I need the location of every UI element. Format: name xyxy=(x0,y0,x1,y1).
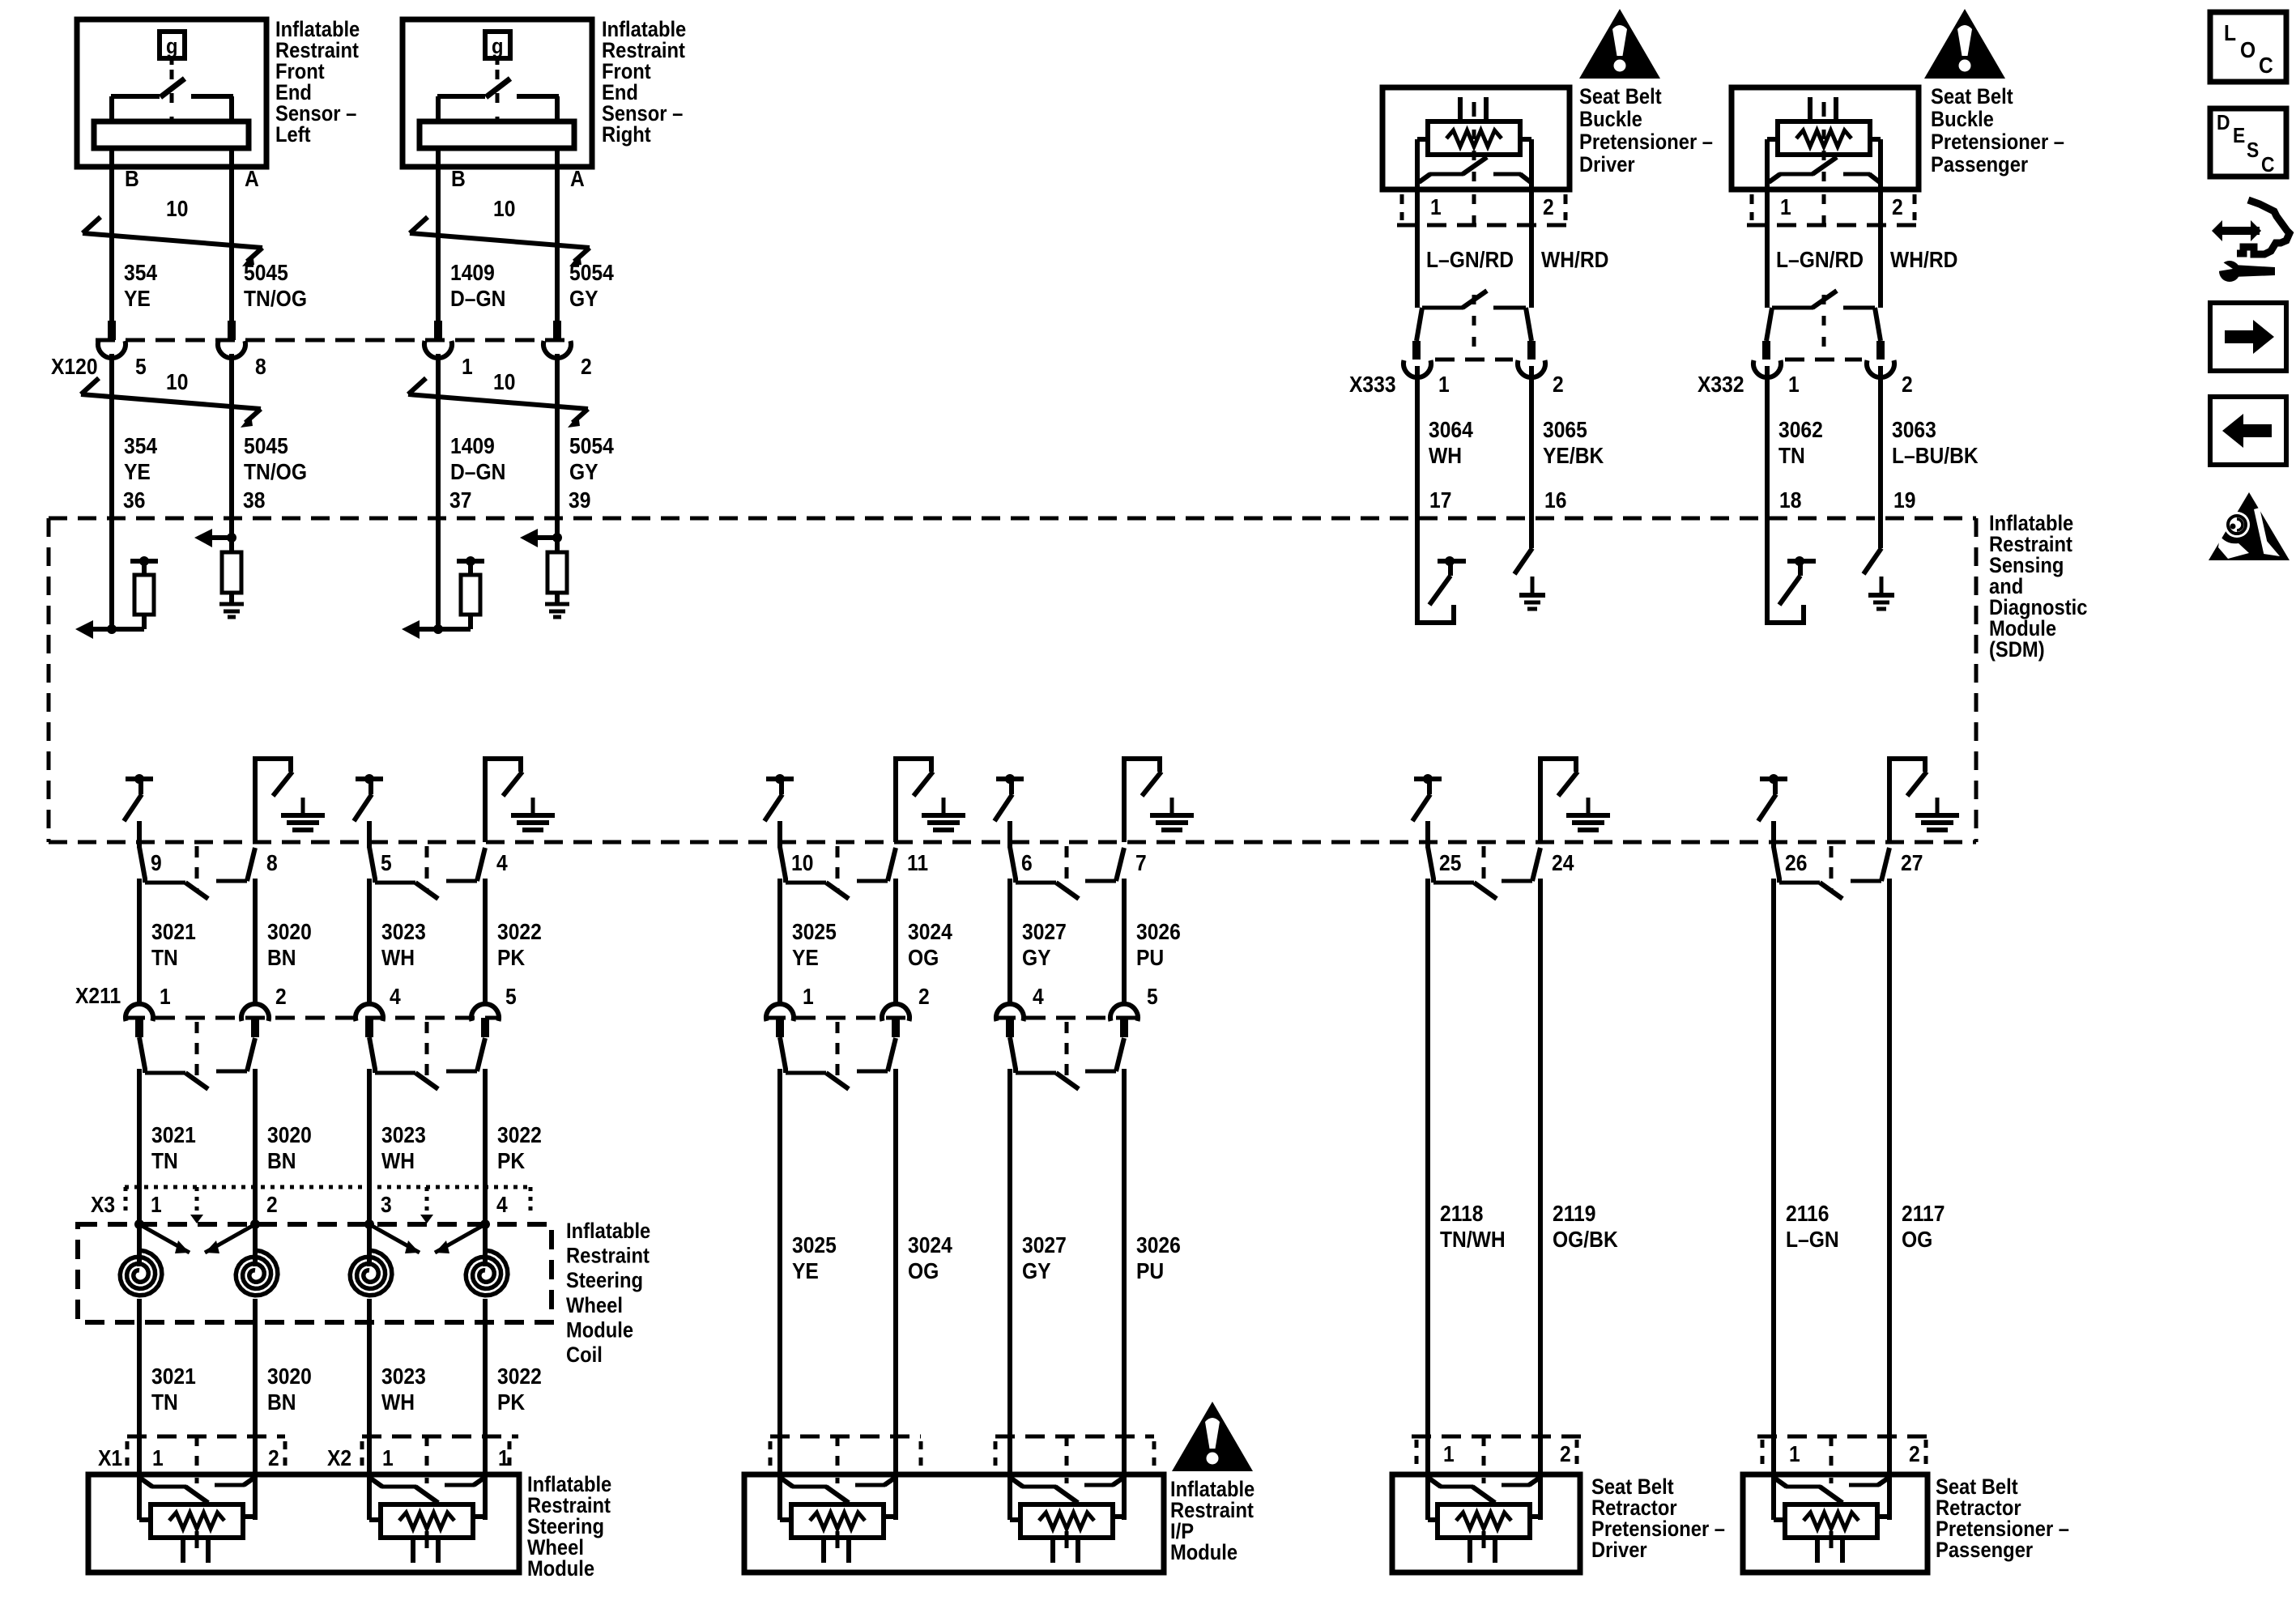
svg-text:Wheel: Wheel xyxy=(566,1293,623,1317)
svg-text:3020: 3020 xyxy=(267,1364,312,1389)
svg-text:3020: 3020 xyxy=(267,919,312,945)
component box: Inflatable Restraint I/P Module xyxy=(744,1474,1164,1572)
junction node on coil box edge at wire 3 xyxy=(364,1219,374,1229)
component box: Inflatable Restraint Front End Sensor - Left (g-switch and mass bar inside) xyxy=(77,18,360,194)
svg-text:1: 1 xyxy=(1438,372,1450,398)
svg-text:Pretensioner –: Pretensioner – xyxy=(1931,130,2064,155)
svg-text:L–GN/RD: L–GN/RD xyxy=(1426,247,1514,273)
wire through coil 4 xyxy=(483,1299,488,1322)
svg-text:L–GN: L–GN xyxy=(1786,1227,1839,1253)
svg-text:PK: PK xyxy=(497,1389,525,1415)
connector X3 label xyxy=(91,1192,115,1218)
svg-text:Coil: Coil xyxy=(566,1343,603,1368)
svg-text:WH: WH xyxy=(381,945,415,971)
junction node on coil box edge at wire 2 xyxy=(250,1219,260,1229)
wire label 3026 PU (lower) xyxy=(1136,1232,1181,1284)
clockspring coil 1 xyxy=(120,1224,162,1296)
svg-text:X2: X2 xyxy=(327,1445,351,1471)
icon: harness repair (arrows and wrench) xyxy=(2212,200,2290,282)
svg-text:PU: PU xyxy=(1136,1258,1164,1284)
wire 3024 OG from SDM to connector xyxy=(893,879,898,1002)
svg-text:16: 16 xyxy=(1544,487,1566,513)
connector shorting bar below I/P 1-2 xyxy=(780,1022,896,1089)
wire through coil 2 xyxy=(253,1299,258,1322)
svg-text:A: A xyxy=(245,166,259,192)
SDM internal: pull resistor to ground on pin 38 xyxy=(194,518,244,617)
svg-text:2117: 2117 xyxy=(1902,1201,1945,1227)
svg-text:5: 5 xyxy=(505,984,517,1010)
pin number 3 (X3) xyxy=(381,1192,392,1218)
wire label 3021 TN (middle) xyxy=(151,1122,196,1174)
wire 3023 WH to steering wheel coil xyxy=(367,1069,372,1224)
wire label 3027 GY (lower) xyxy=(1022,1232,1067,1284)
wire 5045 TN/OG from X120 to SDM pin 38 xyxy=(229,354,234,518)
SDM module dashed box top edge xyxy=(49,517,1976,521)
svg-text:3027: 3027 xyxy=(1022,919,1067,945)
clockspring coil 2 xyxy=(236,1224,278,1296)
svg-text:OG: OG xyxy=(908,1258,939,1284)
wire 3023 WH from coil to steering wheel module xyxy=(367,1322,372,1474)
svg-text:TN/OG: TN/OG xyxy=(244,286,307,312)
SDM pin number 19 xyxy=(1893,487,1915,513)
connector shorting bar below X211 4-5 xyxy=(369,1022,485,1089)
svg-text:Driver: Driver xyxy=(1591,1538,1647,1563)
connector X3 dotted mating face xyxy=(125,1185,532,1189)
svg-text:354: 354 xyxy=(124,433,157,459)
component label: Inflatable Restraint Steering Wheel Module xyxy=(527,1473,611,1581)
SDM pin number 11 xyxy=(907,850,928,876)
svg-text:38: 38 xyxy=(243,487,265,513)
wire label 1409 D-GN (lower) xyxy=(450,433,505,485)
SDM module dashed box right edge xyxy=(1974,518,1979,842)
icon: LOC box xyxy=(2210,12,2286,82)
svg-text:8: 8 xyxy=(266,850,278,876)
SDM pin number 16 xyxy=(1544,487,1566,513)
svg-text:A: A xyxy=(570,166,585,192)
svg-text:BN: BN xyxy=(267,945,296,971)
svg-text:X1: X1 xyxy=(98,1445,122,1471)
svg-text:2: 2 xyxy=(581,354,592,380)
connector X3 link pair 1-2 xyxy=(195,1187,199,1223)
svg-text:10: 10 xyxy=(166,369,188,395)
connector label X120 xyxy=(51,354,98,380)
pin number 8 xyxy=(255,354,266,380)
wire through coil 1 xyxy=(137,1299,142,1322)
svg-text:D–GN: D–GN xyxy=(450,286,505,312)
wire label 3020 BN (upper) xyxy=(267,919,312,971)
svg-text:GY: GY xyxy=(1022,1258,1051,1284)
svg-text:YE: YE xyxy=(124,459,151,485)
svg-text:6: 6 xyxy=(1021,850,1033,876)
svg-text:TN/WH: TN/WH xyxy=(1440,1227,1506,1253)
svg-text:2: 2 xyxy=(1892,194,1903,220)
svg-text:2119: 2119 xyxy=(1553,1201,1595,1227)
connector shorting bar below X211 1-2 xyxy=(139,1022,255,1089)
pin number 5 (X211) xyxy=(505,984,517,1010)
svg-text:Restraint: Restraint xyxy=(566,1244,650,1268)
SDM module dashed box bottom edge xyxy=(49,840,1976,845)
wire label 5045 TN/OG (upper) xyxy=(244,260,307,312)
svg-text:PK: PK xyxy=(497,945,525,971)
wire label 1409 D-GN (upper) xyxy=(450,260,505,312)
svg-text:Buckle: Buckle xyxy=(1579,108,1642,132)
svg-text:GY: GY xyxy=(1022,945,1051,971)
wire 2116 L-GN from SDM pin 26 to retractor passenger xyxy=(1771,879,1776,1474)
svg-text:17: 17 xyxy=(1429,487,1451,513)
SDM pin number 24 xyxy=(1552,850,1574,876)
wire 354 YE from X120 to SDM pin 36 xyxy=(109,354,114,518)
icon: DESC box xyxy=(2210,109,2286,177)
svg-text:TN: TN xyxy=(151,1148,178,1174)
svg-text:2: 2 xyxy=(1553,372,1564,398)
svg-text:2: 2 xyxy=(1560,1441,1571,1467)
svg-text:5: 5 xyxy=(135,354,147,380)
wire label 3021 TN (lower) xyxy=(151,1364,196,1415)
pin number 2 (X120) xyxy=(581,354,592,380)
SDM pin number 25 xyxy=(1439,850,1461,876)
wire 5045 TN/OG from sensor left pin A to X120 pin 8 xyxy=(229,194,234,321)
wire 3022 PK from coil to steering wheel module xyxy=(483,1322,488,1474)
svg-text:1: 1 xyxy=(1430,194,1442,220)
svg-text:3022: 3022 xyxy=(497,1122,542,1148)
svg-text:2: 2 xyxy=(266,1192,278,1218)
squib: I/P air bag stage 1 xyxy=(780,1474,896,1563)
svg-text:B: B xyxy=(125,166,139,192)
svg-text:D–GN: D–GN xyxy=(450,459,505,485)
svg-text:27: 27 xyxy=(1901,850,1923,876)
wire gauge mark 10 (right sensor pair, lower) xyxy=(408,369,588,428)
svg-text:24: 24 xyxy=(1552,850,1574,876)
wire 5054 GY from X120 to SDM pin 39 xyxy=(555,354,560,518)
SDM internal: firing output switch above pin 25 xyxy=(1412,774,1442,848)
SDM pin number 10 xyxy=(791,850,813,876)
pin number 2 (X1) xyxy=(268,1445,279,1471)
wire gauge mark 10 (left sensor pair, upper) xyxy=(83,196,262,266)
svg-text:2: 2 xyxy=(275,984,287,1010)
SDM pin number 9 xyxy=(151,850,162,876)
connector X120 terminal pin 1 xyxy=(424,321,452,358)
svg-text:1: 1 xyxy=(498,1445,509,1471)
connector bracket right (I/P right pair) xyxy=(1152,1441,1157,1470)
svg-text:1: 1 xyxy=(152,1445,164,1471)
component box: Inflatable Restraint Front End Sensor - Right (g-switch and mass bar inside) xyxy=(403,18,686,194)
svg-text:3021: 3021 xyxy=(151,919,196,945)
svg-text:1: 1 xyxy=(462,354,473,380)
svg-text:TN: TN xyxy=(1778,443,1805,469)
wire label 5054 GY (lower) xyxy=(569,433,614,485)
svg-text:37: 37 xyxy=(449,487,471,513)
svg-text:3024: 3024 xyxy=(908,1232,952,1258)
SDM pin number 6 xyxy=(1021,850,1033,876)
svg-text:1: 1 xyxy=(1789,1441,1800,1467)
svg-text:Inflatable: Inflatable xyxy=(566,1219,650,1244)
svg-text:3065: 3065 xyxy=(1543,417,1587,443)
wire label 2119 OG/BK xyxy=(1553,1201,1618,1253)
SDM pin number 5 xyxy=(381,850,392,876)
connector dashed mating face (I/P module, right pair) xyxy=(995,1435,1154,1439)
svg-text:2: 2 xyxy=(268,1445,279,1471)
SDM internal: switch to ground on pin 19 xyxy=(1864,518,1894,609)
wire 3022 PK to steering wheel coil xyxy=(483,1069,488,1224)
svg-text:g: g xyxy=(492,35,504,59)
wire gauge mark 10 (left sensor pair, lower) xyxy=(81,369,261,428)
wire label 354 YE (lower) xyxy=(124,433,157,485)
SDM internal: firing output switch above pin 6 xyxy=(995,774,1024,848)
svg-text:4: 4 xyxy=(496,850,508,876)
connector terminal pin 2 (I/P harness) xyxy=(882,1004,909,1037)
connector X1 link xyxy=(195,1436,199,1474)
svg-text:3: 3 xyxy=(381,1192,392,1218)
wire 3025 YE to I/P module xyxy=(777,1069,782,1474)
svg-text:1: 1 xyxy=(1443,1441,1455,1467)
svg-text:L: L xyxy=(2224,20,2236,46)
wire label 3026 PU (upper) xyxy=(1136,919,1181,971)
svg-text:YE/BK: YE/BK xyxy=(1543,443,1604,469)
svg-text:Steering: Steering xyxy=(566,1269,643,1293)
connector X3 link pair 3-4 xyxy=(425,1187,429,1223)
clockspring coil 4 xyxy=(466,1224,508,1296)
svg-text:5: 5 xyxy=(381,850,392,876)
wire label 2117 OG xyxy=(1902,1201,1945,1253)
connector X1 label xyxy=(98,1445,122,1471)
svg-text:1409: 1409 xyxy=(450,433,495,459)
svg-text:1: 1 xyxy=(1788,372,1800,398)
wire 3021 TN to steering wheel coil xyxy=(137,1069,142,1224)
steering wheel module coil dashed box xyxy=(78,1224,552,1322)
svg-text:BN: BN xyxy=(267,1148,296,1174)
component box: Inflatable Restraint Steering Wheel Module xyxy=(88,1474,519,1572)
connector dashed mating face (I/P module, left pair) xyxy=(770,1435,921,1439)
SDM pin number 39 xyxy=(569,487,590,513)
svg-text:Left: Left xyxy=(275,123,311,147)
svg-text:X333: X333 xyxy=(1349,372,1396,398)
wire 3020 BN from coil to steering wheel module xyxy=(253,1322,258,1474)
svg-text:3027: 3027 xyxy=(1022,1232,1067,1258)
wire label 3025 YE (upper) xyxy=(792,919,837,971)
svg-text:X332: X332 xyxy=(1698,372,1744,398)
coil rotating contact arrows pair 1-2 xyxy=(139,1215,255,1253)
wire 2119 OG/BK from SDM pin 24 to retractor driver xyxy=(1538,879,1543,1474)
svg-text:18: 18 xyxy=(1779,487,1801,513)
svg-text:Seat Belt: Seat Belt xyxy=(1579,85,1662,109)
pin number 5 xyxy=(135,354,147,380)
SDM internal: ground return switch above pin 11 xyxy=(896,759,965,842)
svg-text:3020: 3020 xyxy=(267,1122,312,1148)
wire 354 YE from sensor left pin B to X120 pin 5 xyxy=(109,194,114,321)
svg-text:5045: 5045 xyxy=(244,433,288,459)
SDM internal: firing switch to supply on pin 18 xyxy=(1767,518,1816,623)
SDM internal: firing output switch above pin 10 xyxy=(765,774,794,848)
svg-text:25: 25 xyxy=(1439,850,1461,876)
SDM pin number 38 xyxy=(243,487,265,513)
component label: Inflatable Restraint I/P Module xyxy=(1170,1478,1254,1565)
SDM internal: ground return switch above pin 7 xyxy=(1124,759,1194,842)
svg-text:3023: 3023 xyxy=(381,1122,426,1148)
svg-text:4: 4 xyxy=(1033,984,1044,1010)
wire 3021 TN from SDM to connector xyxy=(137,879,142,1002)
svg-text:3024: 3024 xyxy=(908,919,952,945)
svg-text:Passenger: Passenger xyxy=(1931,153,2028,177)
connector shorting bar at SDM pins 10-11 xyxy=(780,846,896,899)
component: Seat Belt Retractor Pretensioner - Driver (connector + squib) xyxy=(1392,1436,1725,1572)
SDM pin number 7 xyxy=(1135,850,1147,876)
wire label 5045 TN/OG (lower) xyxy=(244,433,307,485)
junction node on coil box edge at wire 4 xyxy=(480,1219,490,1229)
SDM internal: switch to ground on pin 16 xyxy=(1514,518,1545,609)
svg-text:2: 2 xyxy=(918,984,930,1010)
svg-text:10: 10 xyxy=(493,369,515,395)
svg-text:L–GN/RD: L–GN/RD xyxy=(1776,247,1864,273)
wire label 3024 OG (lower) xyxy=(908,1232,952,1284)
svg-text:(SDM): (SDM) xyxy=(1989,638,2045,662)
connector X2 link xyxy=(425,1436,429,1474)
svg-text:PK: PK xyxy=(497,1148,525,1174)
pin number 1 (X3) xyxy=(151,1192,162,1218)
clockspring coil 3 xyxy=(350,1224,392,1296)
connector terminal pin 4 (I/P harness) xyxy=(996,1004,1024,1037)
svg-text:YE: YE xyxy=(124,286,151,312)
pin number 4 (X3) xyxy=(496,1192,508,1218)
svg-text:B: B xyxy=(451,166,466,192)
connector X2 left bracket xyxy=(360,1441,364,1467)
connector X211 terminal pin 2 xyxy=(241,1004,269,1037)
connector terminal pin 1 (I/P harness) xyxy=(766,1004,794,1037)
connector dashed mating face (I/P harness, right pair) xyxy=(996,1016,1140,1020)
SDM internal: firing output switch above pin 26 xyxy=(1758,774,1787,848)
SDM internal: sense resistor with bus tap and off-page node arrow on pin 37 xyxy=(402,518,484,639)
svg-text:Module: Module xyxy=(1170,1541,1237,1565)
SDM pin number 18 xyxy=(1779,487,1801,513)
connector X211 terminal pin 1 xyxy=(126,1004,153,1037)
connector X1 dotted mating face xyxy=(127,1435,285,1439)
SDM pin number 37 xyxy=(449,487,471,513)
svg-text:O: O xyxy=(2240,37,2256,63)
svg-text:11: 11 xyxy=(907,850,928,876)
connector shorting bar at SDM pins 5-4 xyxy=(369,846,485,899)
svg-text:GY: GY xyxy=(569,459,598,485)
pin number 1 (I/P harness) xyxy=(803,984,814,1010)
svg-text:TN: TN xyxy=(151,1389,178,1415)
connector X2 label xyxy=(327,1445,351,1471)
connector X211 dashed mating face xyxy=(126,1016,501,1020)
svg-text:YE: YE xyxy=(792,945,819,971)
SDM module dashed box left edge xyxy=(47,518,51,842)
wire 3027 GY from SDM to connector xyxy=(1007,879,1012,1002)
SDM internal: ground return switch above pin 27 xyxy=(1889,759,1959,842)
SDM internal: ground return switch above pin 24 xyxy=(1540,759,1610,842)
svg-text:8: 8 xyxy=(255,354,266,380)
connector X120 terminal pin 8 xyxy=(218,321,245,358)
pin number 1 (X2 right) xyxy=(498,1445,509,1471)
wire 3026 PU from SDM to connector xyxy=(1122,879,1127,1002)
wire label 3022 PK (lower) xyxy=(497,1364,542,1415)
svg-text:10: 10 xyxy=(791,850,813,876)
svg-text:354: 354 xyxy=(124,260,157,286)
connector X120 terminal pin 2 xyxy=(543,321,571,358)
wire label 3025 YE (lower) xyxy=(792,1232,837,1284)
svg-text:1: 1 xyxy=(1780,194,1791,220)
svg-text:3063: 3063 xyxy=(1892,417,1936,443)
connector X3 left bracket xyxy=(124,1187,128,1216)
svg-text:2: 2 xyxy=(1902,372,1913,398)
connector shorting bar at SDM pins 6-7 xyxy=(1010,846,1124,899)
svg-text:Passenger: Passenger xyxy=(1936,1538,2033,1563)
connector X211 label xyxy=(75,983,121,1009)
svg-text:Right: Right xyxy=(602,123,651,147)
svg-text:g: g xyxy=(166,35,178,59)
warning triangle (I/P module) xyxy=(1172,1402,1253,1471)
wire 1409 D-GN from sensor right pin B to X120 pin 1 xyxy=(436,194,441,321)
svg-text:OG/BK: OG/BK xyxy=(1553,1227,1618,1253)
wire 3021 TN from coil to steering wheel module xyxy=(137,1322,142,1474)
svg-text:5045: 5045 xyxy=(244,260,288,286)
svg-text:3022: 3022 xyxy=(497,919,542,945)
SDM internal: firing output switch above pin 5 xyxy=(354,774,383,848)
wire 2117 OG from SDM pin 27 to retractor passenger xyxy=(1887,879,1892,1474)
svg-text:3025: 3025 xyxy=(792,1232,837,1258)
connector bracket left (I/P left pair) xyxy=(769,1441,773,1470)
wire label 3022 PK (middle) xyxy=(497,1122,542,1174)
SDM pin number 36 xyxy=(123,487,145,513)
squib: driver air bag stage (X2) xyxy=(369,1474,485,1563)
svg-text:Buckle: Buckle xyxy=(1931,108,1994,132)
SDM internal: pull resistor to ground on pin 39 xyxy=(520,518,569,617)
wire label 2118 TN/WH xyxy=(1440,1201,1506,1253)
wire label 3023 WH (upper) xyxy=(381,919,426,971)
svg-text:GY: GY xyxy=(569,286,598,312)
svg-text:3026: 3026 xyxy=(1136,1232,1181,1258)
pin number 2 (X211) xyxy=(275,984,287,1010)
wire label 3022 PK (upper) xyxy=(497,919,542,971)
connector bracket left (I/P right pair) xyxy=(994,1441,998,1470)
wire label 3021 TN (upper) xyxy=(151,919,196,971)
squib: driver air bag stage (X1) xyxy=(139,1474,255,1563)
component: Seat Belt Buckle Pretensioner - Driver (squib, switch, connector X333, warning triangle) xyxy=(1349,9,1713,518)
svg-text:WH: WH xyxy=(381,1389,415,1415)
connector terminal pin 5 (I/P harness) xyxy=(1110,1004,1138,1037)
wire 3020 BN to steering wheel coil xyxy=(253,1069,258,1224)
svg-text:3021: 3021 xyxy=(151,1364,196,1389)
svg-text:26: 26 xyxy=(1785,850,1807,876)
component: Seat Belt Buckle Pretensioner - Passenger (squib, switch, connector X332, warning triangle) xyxy=(1698,9,2064,518)
svg-text:E: E xyxy=(2233,125,2245,148)
svg-text:Module: Module xyxy=(566,1318,633,1343)
connector X2 right bracket xyxy=(508,1441,512,1467)
pin number 4 (X211) xyxy=(390,984,401,1010)
svg-text:9: 9 xyxy=(151,850,162,876)
svg-text:TN: TN xyxy=(151,945,178,971)
connector X211 terminal pin 5 xyxy=(471,1004,499,1037)
svg-text:Pretensioner –: Pretensioner – xyxy=(1579,130,1713,155)
svg-text:39: 39 xyxy=(569,487,590,513)
svg-text:4: 4 xyxy=(390,984,401,1010)
connector X120 dashed mating face xyxy=(96,338,573,343)
svg-text:Module: Module xyxy=(527,1557,594,1581)
svg-text:1409: 1409 xyxy=(450,260,495,286)
connector link (I/P right pair) xyxy=(1065,1436,1069,1474)
SDM internal: sense resistor with bus tap and off-page node arrow on pin 36 xyxy=(75,518,158,639)
wire label 354 YE (upper) xyxy=(124,260,157,312)
wire 3025 YE from SDM to connector xyxy=(777,879,782,1002)
component label: Inflatable Restraint Sensing and Diagnostic Module (SDM) xyxy=(1989,512,2087,662)
svg-text:1: 1 xyxy=(803,984,814,1010)
connector bracket right (I/P left pair) xyxy=(919,1441,923,1470)
svg-text:TN/OG: TN/OG xyxy=(244,459,307,485)
icon: back arrow box xyxy=(2210,397,2286,465)
svg-text:3025: 3025 xyxy=(792,919,837,945)
SDM internal: ground return switch above pin 4 xyxy=(485,759,555,842)
svg-text:3022: 3022 xyxy=(497,1364,542,1389)
